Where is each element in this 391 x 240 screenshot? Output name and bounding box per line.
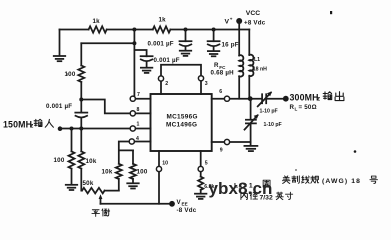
svg-text:9: 9: [220, 147, 223, 153]
potentiometer 50k: [82, 188, 105, 194]
pin 10: [158, 151, 160, 204]
svg-text:10k: 10k: [102, 169, 113, 176]
resistor R 1k (right): [153, 26, 171, 32]
svg-text:16 pF: 16 pF: [222, 41, 239, 48]
ground (top-left): [54, 30, 66, 62]
speck right middle: [354, 150, 357, 153]
speck top right: [330, 11, 332, 14]
svg-text:0.68 µH: 0.68 µH: [211, 69, 235, 76]
svg-text:3: 3: [205, 81, 208, 87]
svg-text:50k: 50k: [83, 180, 94, 187]
inductor RFC 0.68uH: [239, 30, 243, 99]
capacitor 0.001uF (x185 bypass): [180, 30, 192, 56]
svg-text:z: z: [317, 96, 320, 103]
pin 5 with 6.8k bias resistor: [200, 151, 202, 177]
pot wiper arrow: [100, 198, 102, 204]
pin 9 wire: [212, 141, 251, 143]
inductor L1: [249, 30, 253, 99]
VEE rail: [101, 203, 173, 205]
svg-text:8: 8: [137, 107, 140, 113]
node: rail junction x213: [212, 28, 216, 32]
note inner diameter: [241, 192, 247, 199]
svg-text:z: z: [30, 122, 33, 129]
svg-text:EE: EE: [182, 202, 188, 207]
input terminal dot: [58, 126, 63, 131]
note AWG wire gauge: [282, 176, 290, 184]
svg-text:10: 10: [162, 161, 168, 167]
svg-text:100: 100: [54, 157, 65, 164]
svg-text:0.001 µF: 0.001 µF: [148, 41, 174, 48]
svg-text:0.001 µF: 0.001 µF: [46, 103, 72, 110]
top pins 2,3 with bracket wire: [161, 81, 201, 94]
svg-text:L1: L1: [254, 57, 260, 63]
svg-text:7: 7: [137, 92, 140, 98]
wire: input line y128.5: [60, 128, 130, 130]
svg-text:0.001 µF: 0.001 µF: [154, 57, 180, 64]
svg-text:= 50Ω: = 50Ω: [299, 104, 317, 111]
capacitor 16pF: [208, 30, 220, 57]
trimmer capacitor 1-10pF (series): [262, 94, 266, 103]
svg-text:1: 1: [137, 122, 140, 128]
svg-text:10k: 10k: [86, 158, 97, 165]
svg-text:150MH: 150MH: [3, 119, 32, 129]
svg-text:MC1596G: MC1596G: [167, 113, 198, 120]
capacitor 0.001uF (x146 bypass): [134, 50, 152, 73]
svg-text:2: 2: [165, 81, 168, 87]
svg-text:-8 Vdc: -8 Vdc: [177, 207, 197, 214]
svg-text:+8 Vdc: +8 Vdc: [244, 20, 266, 27]
output terminal: [283, 96, 289, 102]
svg-text:6: 6: [219, 89, 222, 95]
node: rail junction x185: [184, 28, 188, 32]
wire: horizontal y43 to 100ohm top: [81, 42, 134, 44]
resistor 100 (x133): [132, 150, 134, 163]
svg-text:MC1496G: MC1496G: [166, 122, 197, 129]
VCC terminal: [236, 18, 242, 24]
svg-text:100: 100: [65, 71, 76, 78]
svg-text:1k: 1k: [159, 17, 167, 24]
svg-text:5: 5: [205, 161, 208, 167]
svg-text:VCC: VCC: [246, 10, 260, 17]
left pins 7,8,1,4: [134, 99, 150, 142]
resistor 100 (upper left): [80, 43, 82, 65]
IC box MC1596G: [151, 94, 212, 151]
svg-text:ybx8.cn: ybx8.cn: [209, 179, 273, 198]
svg-text:+: +: [230, 17, 233, 22]
node: rail junction x134: [132, 28, 136, 32]
wire: pin4 L-shape down: [119, 142, 133, 164]
capacitor 0.001uF (input coupling): [75, 113, 87, 118]
svg-text:(AWG) 18: (AWG) 18: [322, 178, 361, 185]
wire: staircase to pin 8: [81, 100, 130, 114]
resistor R 1k (left): [89, 26, 107, 32]
svg-text:100: 100: [137, 169, 148, 176]
svg-text:300MH: 300MH: [290, 93, 319, 103]
svg-text:L: L: [295, 107, 298, 112]
svg-text:1-10 pF: 1-10 pF: [264, 122, 282, 128]
svg-text:1k: 1k: [93, 18, 101, 25]
svg-text:1-10 pF: 1-10 pF: [260, 109, 278, 115]
svg-text:4: 4: [136, 136, 139, 142]
svg-text:R: R: [214, 62, 219, 69]
wire down to input cap: [80, 82, 82, 113]
top rail wire: [60, 29, 250, 31]
resistor 100 (below input, left): [71, 129, 73, 152]
svg-text:V: V: [225, 19, 230, 26]
wire: vertical x134 rail to pin7: [133, 30, 135, 97]
balance label: [92, 210, 100, 217]
pin 6 output wire: [212, 98, 262, 100]
resistor 10k (balance, x119): [116, 164, 122, 179]
trimmer capacitor 1-10pF (shunt): [250, 99, 252, 120]
resistor 10k (below input, right): [80, 129, 82, 152]
svg-text:18 nH: 18 nH: [253, 67, 267, 73]
